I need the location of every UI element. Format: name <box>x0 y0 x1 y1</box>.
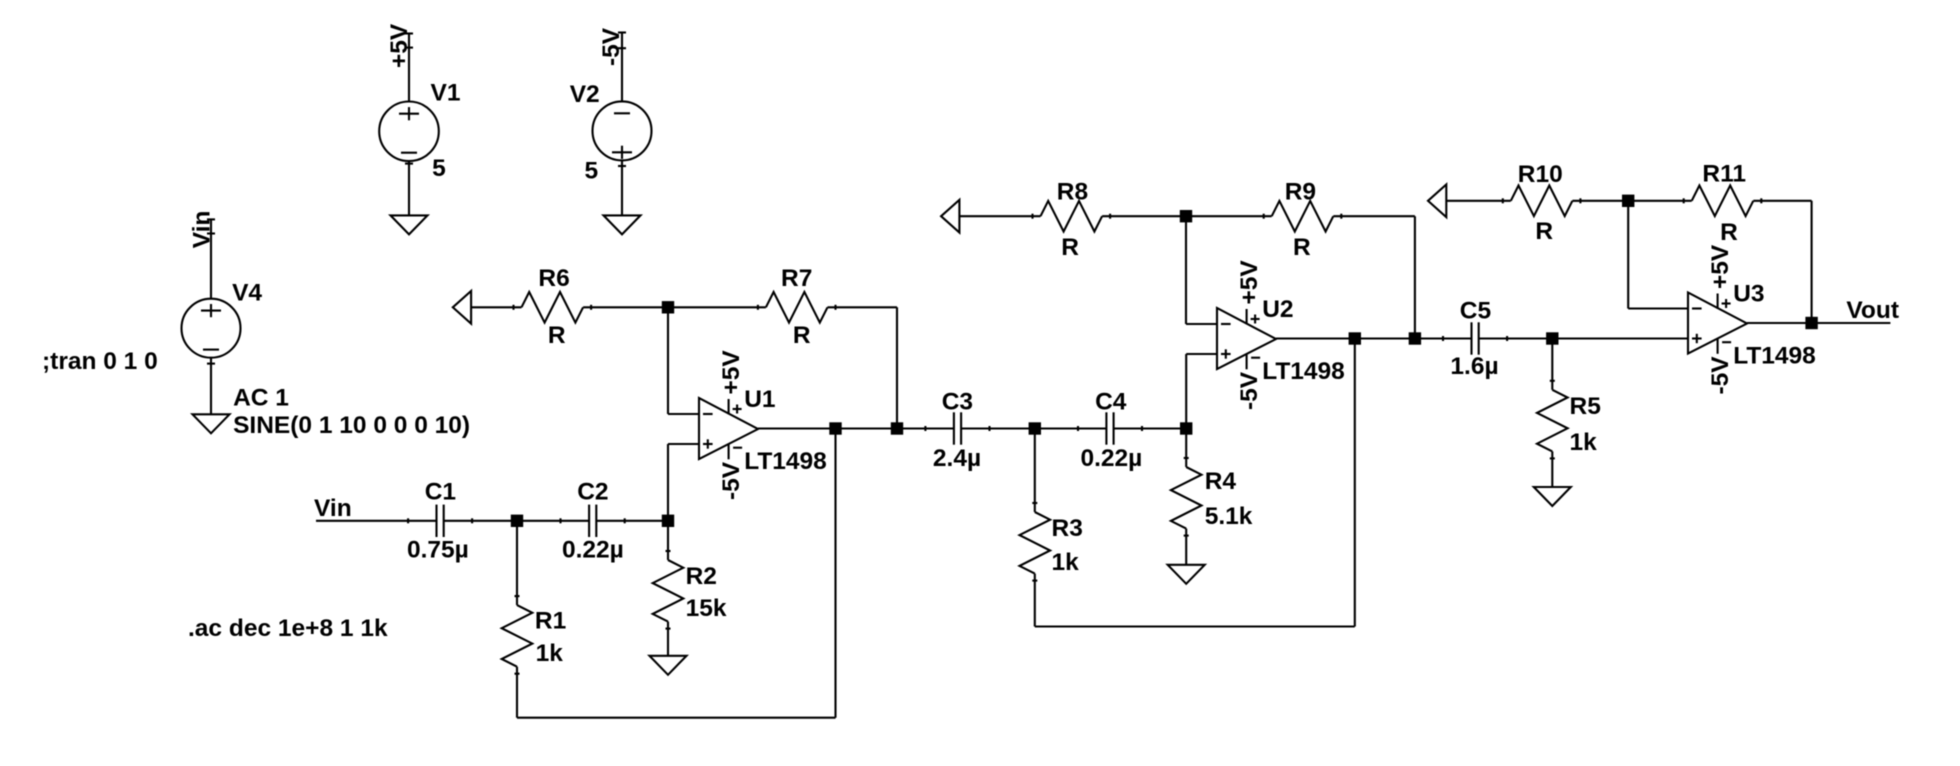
U3 non-inverting input mark <box>1692 337 1702 339</box>
C3 left pin tick <box>924 426 926 431</box>
node R8-R9 / U2 inverting branch <box>1180 210 1192 222</box>
R3 top pin tick <box>1032 502 1037 504</box>
wire flag to R10 <box>1446 200 1511 202</box>
C2 left pin tick <box>559 518 561 523</box>
svg-text:LT1498: LT1498 <box>1733 342 1816 369</box>
wire feedback bottom stage 2 <box>1035 625 1355 627</box>
svg-text:R5: R5 <box>1570 393 1601 420</box>
R2 bottom pin tick <box>666 628 671 630</box>
wire R1 to feedback line <box>516 667 518 718</box>
R3 bottom pin tick <box>1032 580 1037 582</box>
wire node to R1 <box>516 521 518 605</box>
node U1 output / R7 branch <box>891 422 903 434</box>
resistor R6 <box>522 292 584 323</box>
svg-text:C1: C1 <box>425 478 456 505</box>
svg-text:1k: 1k <box>536 640 564 667</box>
R8 left pin tick <box>1031 214 1033 219</box>
wire flag to R8 <box>959 215 1040 217</box>
V4 - pin tick <box>207 363 215 365</box>
capacitor C4 <box>1105 412 1107 444</box>
R9 right pin tick <box>1340 214 1342 219</box>
resistor R9 <box>1272 201 1334 232</box>
wire down to U1 output node <box>896 307 898 428</box>
R4 top pin tick <box>1184 457 1189 459</box>
svg-text:+5V: +5V <box>386 23 413 68</box>
wire R9 to corner <box>1333 215 1415 217</box>
node C3-C4 / R3 junction <box>1029 422 1041 434</box>
wire U1 non-inverting input down to C2 node <box>667 444 669 521</box>
U2 V- power pin <box>1246 354 1248 370</box>
svg-text:R10: R10 <box>1518 161 1563 188</box>
svg-text:R7: R7 <box>781 265 812 292</box>
capacitor C3 <box>953 412 955 444</box>
svg-text:1.6µ: 1.6µ <box>1450 353 1498 380</box>
wire into U3 inverting input <box>1628 307 1688 309</box>
U2 V+ power pin <box>1246 309 1248 324</box>
svg-text:5.1k: 5.1k <box>1205 503 1253 530</box>
R9 left pin tick <box>1263 214 1265 219</box>
U2 inverting input mark <box>1221 323 1231 325</box>
wire down to Vout node <box>1811 201 1813 323</box>
resistor R5 <box>1537 390 1568 452</box>
wire V1 to ground <box>408 161 410 215</box>
svg-text:+5V: +5V <box>718 350 745 395</box>
svg-text:Vout: Vout <box>1846 297 1899 324</box>
node R6-R7 / U1 inverting branch <box>662 301 674 313</box>
node C4 output / R4 junction <box>1180 422 1192 434</box>
C5 left pin tick <box>1442 336 1444 341</box>
svg-text:-5V: -5V <box>718 461 745 500</box>
wire into U1 non-inverting input <box>668 443 699 445</box>
svg-text:R: R <box>793 322 811 349</box>
ground at V4 <box>193 414 230 433</box>
wire U2 non-inverting input down to C4 node <box>1185 354 1187 429</box>
C1 right pin tick <box>471 518 473 523</box>
svg-text:R2: R2 <box>686 563 717 590</box>
V4 Vin flag tick <box>207 218 215 220</box>
V1 - pin tick <box>405 163 413 165</box>
svg-text:AC 1: AC 1 <box>233 384 289 411</box>
U2 non-inverting input mark <box>1221 353 1231 355</box>
wire feedback bottom stage 1 <box>517 717 836 719</box>
svg-text:U3: U3 <box>1733 280 1764 307</box>
svg-text:5: 5 <box>585 158 599 185</box>
net flag arrow at R6 <box>453 291 471 324</box>
wire R3 to feedback line <box>1034 574 1036 627</box>
svg-text:C3: C3 <box>942 389 973 416</box>
resistor R2 <box>653 560 684 622</box>
U1 inverting input mark <box>703 413 713 415</box>
svg-text:.ac dec 1e+8 1 1k: .ac dec 1e+8 1 1k <box>188 615 388 642</box>
node Vout <box>1805 317 1817 329</box>
capacitor C1 <box>435 505 437 537</box>
wire U2 output to C5 <box>1276 337 1472 339</box>
wire U3 output to Vout <box>1747 322 1890 324</box>
R5 top pin tick <box>1550 380 1555 382</box>
svg-text:SINE(0 1 10 0 0 0 10): SINE(0 1 10 0 0 0 10) <box>233 412 470 439</box>
svg-text:0.22µ: 0.22µ <box>1081 445 1143 472</box>
svg-text:R: R <box>1293 234 1311 261</box>
svg-text:15k: 15k <box>686 595 727 622</box>
svg-text:LT1498: LT1498 <box>1262 358 1345 385</box>
V2 - pin tick <box>618 47 626 49</box>
ground at R5 <box>1534 487 1571 506</box>
wire R8 to R9 <box>1102 215 1272 217</box>
wire V4 top stub <box>210 219 212 298</box>
op-amp U1 LT1498 <box>699 398 758 459</box>
R5 bottom pin tick <box>1550 457 1555 459</box>
wire Vin to C1 <box>316 520 437 522</box>
svg-text:Vin: Vin <box>188 211 215 249</box>
C5 right pin tick <box>1506 336 1508 341</box>
C1 left pin tick <box>407 518 409 523</box>
C4 left pin tick <box>1077 426 1079 431</box>
V4 + pin tick <box>207 232 215 234</box>
V1 + pin tick <box>405 47 413 49</box>
svg-text:Vin: Vin <box>314 495 352 522</box>
svg-text:0.22µ: 0.22µ <box>562 537 624 564</box>
net flag arrow at R8 <box>941 200 959 233</box>
R4 bottom pin tick <box>1184 535 1189 537</box>
svg-text:1k: 1k <box>1570 429 1598 456</box>
wire C5 to U3 non-inverting input <box>1479 337 1688 339</box>
ground at R4 <box>1168 565 1205 584</box>
wire node to R4 <box>1185 429 1187 468</box>
wire C2 to node <box>596 520 668 522</box>
node R10-R11 / U3 inverting branch <box>1622 195 1634 207</box>
ground at R2 <box>650 656 687 675</box>
wire R2 to ground <box>667 622 669 656</box>
svg-text:U2: U2 <box>1262 296 1293 323</box>
V1 +5V flag tick <box>405 32 413 34</box>
svg-text:C5: C5 <box>1460 298 1491 325</box>
voltage source V4 <box>182 299 241 358</box>
ground at V1 <box>391 215 428 234</box>
wire R7 to corner <box>828 306 898 308</box>
wire node down to U2 inverting input <box>1185 216 1187 324</box>
svg-text:0.75µ: 0.75µ <box>407 537 469 564</box>
R2 top pin tick <box>666 550 671 552</box>
svg-text:R6: R6 <box>538 265 569 292</box>
wire feedback rise to U2 output <box>1354 339 1356 627</box>
svg-text:5: 5 <box>432 155 446 182</box>
R8 right pin tick <box>1109 214 1111 219</box>
svg-text:V4: V4 <box>232 280 262 307</box>
wire R10 to R11 <box>1572 200 1691 202</box>
svg-text:R9: R9 <box>1285 179 1316 206</box>
wire C3 to C4 <box>961 427 1106 429</box>
resistor R7 <box>766 292 828 323</box>
resistor R1 <box>502 605 533 667</box>
C2 right pin tick <box>624 518 626 523</box>
U1 V+ power pin <box>728 399 730 414</box>
svg-text:R: R <box>1061 234 1079 261</box>
op-amp U2 LT1498 <box>1217 308 1276 369</box>
wire R11 to corner <box>1753 200 1811 202</box>
svg-text:V2: V2 <box>570 81 600 108</box>
wire V2 top stub <box>621 33 623 102</box>
wire C1 to C2 <box>444 520 589 522</box>
wire node to R7 <box>668 306 766 308</box>
C3 right pin tick <box>988 426 990 431</box>
R1 bottom pin tick <box>515 673 520 675</box>
svg-text:R4: R4 <box>1205 468 1237 495</box>
wire R4 to ground <box>1185 529 1187 565</box>
svg-text:V1: V1 <box>431 80 461 107</box>
wire node down to U1 inverting input <box>667 307 669 414</box>
svg-text:2.4µ: 2.4µ <box>933 445 981 472</box>
svg-text:LT1498: LT1498 <box>744 448 827 475</box>
svg-text:+5V: +5V <box>1236 260 1263 305</box>
svg-text:U1: U1 <box>744 386 775 413</box>
wire V1 top stub <box>408 34 410 102</box>
svg-text:R3: R3 <box>1052 515 1083 542</box>
R11 right pin tick <box>1760 198 1762 203</box>
R6 right pin tick <box>590 305 592 310</box>
wire U1 output to C3 <box>758 427 954 429</box>
R7 right pin tick <box>834 305 836 310</box>
wire C4 to node <box>1114 427 1187 429</box>
svg-text:+5V: +5V <box>1707 244 1734 289</box>
node C5 output / R5 junction <box>1546 332 1558 344</box>
wire flag to R6 <box>472 306 522 308</box>
wire V2 to ground <box>621 160 623 215</box>
wire into U2 inverting input <box>1186 323 1217 325</box>
op-amp U3 LT1498 <box>1688 293 1747 354</box>
svg-text:R: R <box>1720 219 1738 246</box>
capacitor C2 <box>588 505 590 537</box>
node U2 output / feedback <box>1349 332 1361 344</box>
node U1 output / feedback <box>829 422 841 434</box>
R10 right pin tick <box>1579 198 1581 203</box>
svg-text:1k: 1k <box>1052 549 1080 576</box>
voltage source V2 <box>593 101 652 160</box>
capacitor C5 <box>1470 322 1472 354</box>
R1 top pin tick <box>515 595 520 597</box>
node C2 output / R2 junction <box>662 515 674 527</box>
svg-text:C4: C4 <box>1095 389 1127 416</box>
wire node to R5 <box>1551 339 1553 390</box>
U3 V+ power pin <box>1717 294 1719 309</box>
svg-text:;tran 0 1 0: ;tran 0 1 0 <box>42 348 158 375</box>
svg-text:-5V: -5V <box>1707 356 1734 395</box>
wire R6 to node <box>583 306 668 308</box>
svg-text:R: R <box>548 322 566 349</box>
svg-text:-5V: -5V <box>598 27 625 66</box>
voltage source V1 <box>379 102 439 162</box>
ground at V2 <box>604 215 641 234</box>
R10 left pin tick <box>1502 198 1504 203</box>
wire R5 to ground <box>1551 451 1553 487</box>
net flag arrow at R10 <box>1428 185 1446 218</box>
V2 + pin tick <box>618 165 626 167</box>
R11 left pin tick <box>1683 198 1685 203</box>
V2 -5V flag tick <box>618 31 626 33</box>
wire down to U2 output node <box>1414 216 1416 338</box>
R7 left pin tick <box>757 305 759 310</box>
svg-text:R11: R11 <box>1702 161 1746 188</box>
node U2 output / R9 branch <box>1409 332 1421 344</box>
R6 left pin tick <box>512 305 514 310</box>
resistor R3 <box>1020 512 1051 574</box>
wire node to R2 <box>667 521 669 560</box>
resistor R8 <box>1041 201 1103 232</box>
C4 right pin tick <box>1141 426 1143 431</box>
node C1-C2 / R1 junction <box>511 515 523 527</box>
wire node down to U3 inverting input <box>1627 201 1629 309</box>
resistor R10 <box>1511 186 1573 217</box>
resistor R11 <box>1692 186 1754 217</box>
wire V4 to ground <box>210 358 212 415</box>
svg-text:C2: C2 <box>577 478 608 505</box>
wire feedback rise to U1 output <box>834 429 836 718</box>
svg-text:-5V: -5V <box>1236 371 1263 410</box>
U3 V- power pin <box>1717 338 1719 354</box>
svg-text:R1: R1 <box>535 608 566 635</box>
svg-text:R8: R8 <box>1057 179 1088 206</box>
wire into U2 non-inverting input <box>1186 353 1217 355</box>
wire into U1 inverting input <box>668 413 699 415</box>
svg-text:R: R <box>1535 218 1553 245</box>
resistor R4 <box>1171 467 1202 529</box>
wire node to R3 <box>1034 429 1036 513</box>
U1 V- power pin <box>728 444 730 460</box>
U1 non-inverting input mark <box>703 443 713 445</box>
U3 inverting input mark <box>1692 307 1702 309</box>
